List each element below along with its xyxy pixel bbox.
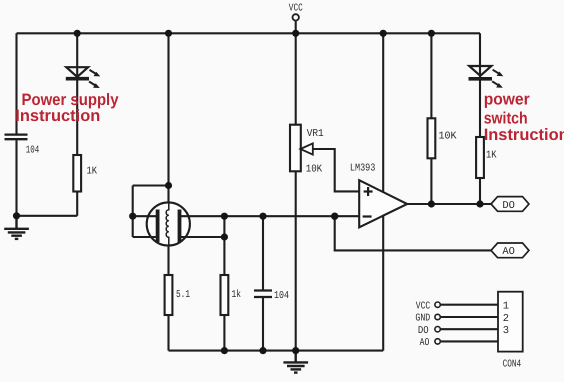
svg-text:switch: switch xyxy=(484,109,528,127)
svg-text:VCC: VCC xyxy=(416,300,430,312)
wire C2 column xyxy=(262,216,264,289)
AO output tag xyxy=(491,243,529,258)
svg-text:CON4: CON4 xyxy=(503,359,522,371)
node VR1 ground xyxy=(292,347,299,354)
resistor R1 1K xyxy=(73,155,81,192)
svg-text:10K: 10K xyxy=(439,131,458,143)
connector pin circle AO xyxy=(435,339,440,344)
svg-text:10K: 10K xyxy=(306,164,323,176)
wire R4 bottom xyxy=(430,158,432,204)
node sensor left pin xyxy=(129,213,136,220)
sensor heater coil xyxy=(166,203,169,246)
wire RL column xyxy=(223,216,225,275)
wire bottom-left to ground xyxy=(17,215,78,217)
wire sensor pin left upper xyxy=(133,215,157,217)
wire VCC stub xyxy=(295,21,297,33)
node ground left xyxy=(13,212,20,219)
capacitor C2 104 xyxy=(254,291,272,298)
op-amp U1 LM393 xyxy=(359,180,407,227)
svg-text:DO: DO xyxy=(418,325,429,337)
svg-text:1k: 1k xyxy=(232,289,242,301)
node rail-sensor xyxy=(165,30,172,37)
resistor R3 1k xyxy=(221,275,229,315)
wire R5 bottom to DO xyxy=(479,178,481,204)
wire R1 bottom xyxy=(76,192,78,216)
svg-text:Instruction: Instruction xyxy=(15,107,100,125)
wire sensor left branch vertical xyxy=(132,186,134,238)
svg-text:104: 104 xyxy=(274,290,289,302)
resistor R5 1K xyxy=(476,137,484,178)
wire pin2 GND xyxy=(441,316,498,318)
wire top VCC rail xyxy=(17,32,481,34)
svg-text:VR1: VR1 xyxy=(307,128,324,140)
sensor right plate xyxy=(178,210,182,243)
wire R4 top xyxy=(430,33,432,118)
wire VR1 bottom to ground rail xyxy=(295,171,297,350)
node rail-opamp V+ xyxy=(380,30,387,37)
potentiometer VR1 body xyxy=(290,125,301,172)
svg-text:AO: AO xyxy=(502,246,515,258)
VR1 wiper arrow xyxy=(300,143,312,154)
resistor R4 10K xyxy=(428,118,436,158)
wire op-amp output xyxy=(407,203,491,205)
wire left border upper xyxy=(15,33,17,133)
node rail-LED1 xyxy=(74,30,81,37)
svg-text:3: 3 xyxy=(503,325,509,337)
LED D1 xyxy=(66,67,88,77)
node rail-VCC xyxy=(292,30,299,37)
ground G1 xyxy=(4,216,29,239)
connector pin circle VCC xyxy=(435,302,440,307)
svg-text:2: 2 xyxy=(503,313,509,325)
node sensor top xyxy=(165,182,172,189)
svg-text:power: power xyxy=(484,91,531,109)
wire sensor column from rail xyxy=(167,33,169,204)
svg-text:1K: 1K xyxy=(87,166,98,178)
connector pin circle GND xyxy=(435,314,440,319)
wire sensor pin right lower xyxy=(180,236,225,238)
wire R3 bottom xyxy=(223,315,225,351)
op-amp minus glyph xyxy=(363,215,372,217)
wire pin3 DO xyxy=(441,328,498,330)
wire left border lower xyxy=(15,140,17,216)
connector CON4 box xyxy=(498,292,523,352)
wire op-amp V+ and ground column xyxy=(382,33,384,350)
wire C2 bottom xyxy=(262,298,264,351)
node output-R4 xyxy=(428,200,435,207)
svg-text:GND: GND xyxy=(415,313,430,325)
wire sensor output to comparator minus xyxy=(180,215,360,217)
wire pin1 VCC xyxy=(441,304,498,306)
svg-text:1K: 1K xyxy=(486,150,497,162)
wire VR1 top xyxy=(295,33,297,124)
wire pin4 AO xyxy=(441,340,498,342)
node RL top xyxy=(221,213,228,220)
svg-text:Instruction: Instruction xyxy=(484,126,564,144)
svg-text:LM393: LM393 xyxy=(350,163,376,175)
op-amp plus glyph xyxy=(364,187,373,196)
capacitor C1 104 plates xyxy=(5,135,28,140)
node RL bottom xyxy=(221,347,228,354)
LED D1 emission arrows xyxy=(89,70,98,87)
node minus input xyxy=(331,213,338,220)
wire bottom ground rail xyxy=(169,350,384,352)
wire LED2 cathode to R5 xyxy=(479,79,481,137)
wire LED1 cathode to R1 xyxy=(76,79,78,155)
node RL pin xyxy=(221,233,228,240)
svg-text:5.1: 5.1 xyxy=(176,289,190,301)
DO output tag xyxy=(491,197,529,212)
VCC terminal circle xyxy=(293,14,299,20)
wire minus node to AO xyxy=(335,216,491,250)
node rail-R4 xyxy=(428,30,435,37)
wire R2 bottom xyxy=(167,315,169,351)
wire sensor pin left lower xyxy=(133,236,157,238)
LED D2 xyxy=(469,66,491,76)
svg-text:VCC: VCC xyxy=(289,3,303,15)
gas sensor MQ body circle xyxy=(147,202,190,245)
wire sensor left branch top xyxy=(133,184,169,186)
resistor R2 5.1 xyxy=(165,275,173,315)
wire wiper to plus input xyxy=(313,149,359,191)
svg-text:1: 1 xyxy=(503,301,509,313)
svg-text:104: 104 xyxy=(26,145,40,157)
wire LED1 anode xyxy=(76,33,78,78)
wire sensor heater bottom to R2 xyxy=(167,245,169,276)
svg-text:DO: DO xyxy=(502,200,515,212)
node C2 bottom xyxy=(259,347,266,354)
sensor left plate xyxy=(156,210,160,243)
svg-text:AO: AO xyxy=(420,337,430,349)
connector pin circle DO xyxy=(435,327,440,332)
node C2 top xyxy=(259,213,266,220)
node output-R5 xyxy=(476,200,483,207)
wire LED2 anode xyxy=(479,33,481,79)
ground G2 xyxy=(283,351,308,373)
LED D2 emission arrows xyxy=(492,70,501,87)
